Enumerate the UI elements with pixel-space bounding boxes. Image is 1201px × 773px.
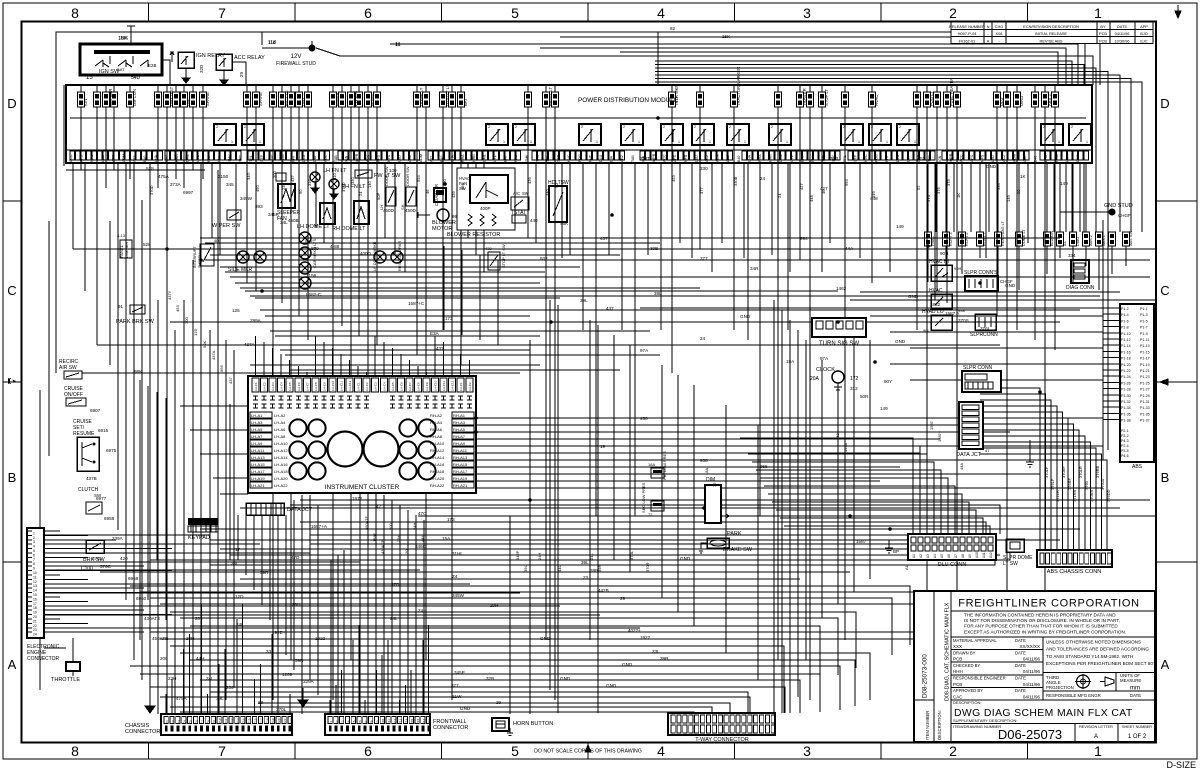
svg-text:MEASURE: MEASURE <box>1120 678 1141 683</box>
rotated wire labels on verticals <box>149 171 1111 572</box>
svg-text:B40: B40 <box>737 156 741 162</box>
switch WIPER SW <box>212 210 241 229</box>
svg-text:UTL: UTL <box>196 155 200 162</box>
svg-text:ABS 1: ABS 1 <box>1102 235 1106 246</box>
svg-text:GND: GND <box>740 314 751 319</box>
svg-text:C22: C22 <box>289 718 293 724</box>
svg-text:1 OF 2: 1 OF 2 <box>1128 734 1147 740</box>
svg-text:04/11/96: 04/11/96 <box>1115 31 1130 36</box>
throttle <box>51 655 80 683</box>
panel dimmer <box>117 233 132 258</box>
svg-text:F16: F16 <box>416 718 420 724</box>
svg-text:90H: 90H <box>954 266 961 271</box>
svg-text:370LF: 370LF <box>1044 466 1049 478</box>
svg-text:RH-A21: RH-A21 <box>453 483 468 488</box>
svg-text:ACC RELAY: ACC RELAY <box>234 55 265 61</box>
svg-text:ABS 2: ABS 2 <box>1089 235 1093 246</box>
svg-text:1: 1 <box>886 140 888 144</box>
svg-text:CAC: CAC <box>953 694 963 699</box>
svg-text:LED: LED <box>694 155 698 162</box>
svg-text:371LR: 371LR <box>1055 490 1060 502</box>
svg-text:F11: F11 <box>387 719 391 724</box>
svg-text:39R: 39R <box>260 570 269 575</box>
svg-text:9: 9 <box>33 567 35 571</box>
svg-text:370L: 370L <box>276 707 287 712</box>
svg-text:1: 1 <box>1058 140 1060 144</box>
wire verticals right bundle to ABS chassis conn <box>980 388 1107 550</box>
svg-text:HVAC: HVAC <box>929 288 943 294</box>
svg-text:RH-A19: RH-A19 <box>453 476 468 481</box>
wire top bus <box>56 32 1100 373</box>
cab marker lamps <box>299 232 317 289</box>
svg-text:8: 8 <box>71 743 79 759</box>
wire number labels <box>86 26 1068 712</box>
svg-text:C12: C12 <box>230 718 234 724</box>
svg-text:STP: STP <box>853 154 857 162</box>
ground BP <box>885 540 899 554</box>
svg-text:DIAG CONN: DIAG CONN <box>1066 285 1095 291</box>
svg-text:A4: A4 <box>933 554 937 558</box>
svg-text:1: 1 <box>231 140 233 144</box>
svg-text:RH-A9: RH-A9 <box>453 441 466 446</box>
svg-text:ABS: ABS <box>1132 464 1143 470</box>
switch LH DOOR SW <box>379 166 396 210</box>
svg-text:RH-A12: RH-A12 <box>430 448 445 453</box>
cluster left pin labels <box>250 412 288 488</box>
svg-text:BAT: BAT <box>800 154 804 162</box>
svg-text:1587+C: 1587+C <box>408 301 425 306</box>
svg-text:37600: 37600 <box>1100 478 1105 490</box>
svg-text:IGN: IGN <box>345 155 349 162</box>
svg-text:345P: 345P <box>515 550 520 560</box>
svg-text:HVC: HVC <box>567 154 571 162</box>
wire pin-row drops <box>212 163 1028 516</box>
svg-text:46K: 46K <box>460 183 465 190</box>
svg-text:A10: A10 <box>975 552 979 558</box>
switch SEC LOW PRES <box>641 482 664 517</box>
svg-text:2: 2 <box>949 5 957 21</box>
svg-text:1587: 1587 <box>856 539 867 544</box>
svg-text:DIA: DIA <box>610 155 614 162</box>
svg-text:11: 11 <box>33 575 37 579</box>
svg-text:04/11/96: 04/11/96 <box>1023 657 1041 662</box>
chassis connector <box>125 714 293 735</box>
svg-text:ABS CHASSIS CONN: ABS CHASSIS CONN <box>1047 569 1101 575</box>
svg-text:2: 2 <box>1071 125 1073 129</box>
svg-text:SPARE: SPARE <box>258 92 263 106</box>
svg-text:C13: C13 <box>236 718 240 724</box>
svg-text:2: 2 <box>33 536 35 540</box>
svg-text:GND: GND <box>460 706 471 711</box>
svg-text:528: 528 <box>143 242 151 247</box>
svg-text:ADM: ADM <box>419 154 423 162</box>
svg-text:P1-24: P1-24 <box>1121 375 1131 379</box>
svg-text:HVAC: HVAC <box>874 95 879 106</box>
svg-text:439: 439 <box>485 246 492 251</box>
svg-text:33L: 33L <box>266 649 274 654</box>
svg-text:LH: LH <box>379 205 384 210</box>
svg-text:ACC: ACC <box>366 154 370 162</box>
svg-text:TRC: TRC <box>239 154 243 162</box>
svg-text:SLPR CONN'S: SLPR CONN'S <box>964 270 998 276</box>
svg-text:F17: F17 <box>422 718 426 724</box>
svg-text:6959: 6959 <box>104 516 115 521</box>
svg-text:1: 1 <box>709 140 711 144</box>
svg-text:3Y0: 3Y0 <box>926 194 931 202</box>
svg-text:1: 1 <box>786 140 788 144</box>
svg-text:LH-C11: LH-C11 <box>442 381 446 391</box>
svg-text:ADM: ADM <box>1012 154 1016 162</box>
svg-text:PRI LOW PRES: PRI LOW PRES <box>662 451 667 480</box>
svg-text:P1-18: P1-18 <box>1121 357 1131 361</box>
svg-text:P1-9: P1-9 <box>1140 332 1148 336</box>
svg-text:345: 345 <box>226 182 234 187</box>
svg-text:345P: 345P <box>454 670 465 675</box>
cluster right pin labels <box>430 412 474 488</box>
svg-text:DRAWN BY: DRAWN BY <box>953 650 976 655</box>
switch RECIRC AIR SW <box>59 359 82 379</box>
svg-text:72: 72 <box>712 482 717 487</box>
svg-text:90: 90 <box>1016 189 1021 194</box>
svg-text:90Y: 90Y <box>884 379 892 384</box>
svg-text:HHH: HHH <box>953 669 963 674</box>
svg-text:DATA JCT: DATA JCT <box>287 507 313 513</box>
svg-text:427: 427 <box>799 183 804 190</box>
svg-text:TRC: TRC <box>535 154 539 162</box>
svg-text:LED: LED <box>991 155 995 162</box>
svg-text:23H: 23H <box>168 676 176 681</box>
svg-text:38L: 38L <box>231 561 239 566</box>
svg-text:LHA: LHA <box>1044 154 1048 162</box>
svg-text:POWER DISTRIBUTION MODULE: POWER DISTRIBUTION MODULE <box>578 97 678 104</box>
svg-text:450D: 450D <box>383 208 395 213</box>
svg-text:FOG: FOG <box>578 154 582 162</box>
svg-text:453: 453 <box>671 175 676 182</box>
svg-text:A1: A1 <box>904 564 909 570</box>
svg-text:52: 52 <box>916 185 921 190</box>
ABS CHASSIS CONN connector <box>1037 550 1112 575</box>
svg-text:300: 300 <box>272 171 277 178</box>
svg-text:15: 15 <box>86 75 93 81</box>
lamp LH DOME LT <box>288 203 335 230</box>
svg-text:39L: 39L <box>580 298 588 303</box>
svg-text:LH-A2: LH-A2 <box>274 413 286 418</box>
svg-text:Z4: Z4 <box>452 574 458 579</box>
svg-text:200: 200 <box>388 523 393 530</box>
svg-text:HRN: HRN <box>472 154 476 162</box>
svg-text:1: 1 <box>259 140 261 144</box>
svg-text:UTILITY LT: UTILITY LT <box>445 84 450 106</box>
svg-text:HVAC: HVAC <box>931 235 935 246</box>
svg-text:CIG SDR: CIG SDR <box>108 89 113 106</box>
svg-text:XX/XX/XX: XX/XX/XX <box>1019 644 1040 649</box>
svg-text:RHA: RHA <box>758 154 762 162</box>
svg-text:P1-4: P1-4 <box>1121 313 1129 317</box>
svg-text:2: 2 <box>581 125 583 129</box>
svg-text:20H: 20H <box>292 602 300 607</box>
svg-text:C7: C7 <box>200 720 204 724</box>
svg-text:430ATE: 430ATE <box>144 616 160 621</box>
svg-text:20L: 20L <box>404 547 409 554</box>
svg-text:21W: 21W <box>452 694 462 699</box>
svg-text:FOG: FOG <box>875 154 879 162</box>
svg-text:5: 5 <box>511 743 519 759</box>
svg-text:1: 1 <box>596 140 598 144</box>
svg-text:RH-A11: RH-A11 <box>453 448 468 453</box>
switch INTERRUPT SWITCH <box>193 238 219 268</box>
svg-text:1: 1 <box>1094 743 1102 759</box>
svg-text:LH-A18: LH-A18 <box>274 469 288 474</box>
svg-text:RH DOOR MRKR: RH DOOR MRKR <box>398 241 402 271</box>
svg-text:AC2: AC2 <box>705 155 709 162</box>
svg-text:20: 20 <box>33 615 37 619</box>
svg-text:P2-4: P2-4 <box>1121 444 1129 448</box>
svg-text:437: 437 <box>290 175 295 182</box>
svg-text:330: 330 <box>350 177 355 184</box>
svg-text:172: 172 <box>850 376 859 382</box>
svg-text:CONNECTOR: CONNECTOR <box>433 725 468 731</box>
ground mid lower <box>298 688 308 707</box>
keypad <box>188 518 218 541</box>
svg-text:INTERRUPT: INTERRUPT <box>193 246 197 268</box>
svg-text:P1-12: P1-12 <box>1121 338 1131 342</box>
svg-text:RH DOME LT: RH DOME LT <box>332 226 366 232</box>
svg-text:149: 149 <box>880 406 888 411</box>
svg-text:39R: 39R <box>597 565 602 572</box>
svg-text:448: 448 <box>809 195 814 202</box>
svg-text:P4-3: P4-3 <box>1121 439 1129 443</box>
svg-text:LED: LED <box>398 155 402 162</box>
PDM pin labels texture <box>69 153 1080 162</box>
svg-text:DM1: DM1 <box>1076 154 1080 162</box>
svg-text:LH DOOR MRKR: LH DOOR MRKR <box>373 241 377 271</box>
svg-text:1: 1 <box>678 140 680 144</box>
svg-text:329A: 329A <box>303 679 315 684</box>
svg-text:AFS: AFS <box>970 154 974 162</box>
svg-text:97D: 97D <box>391 582 400 587</box>
svg-text:2: 2 <box>623 125 625 129</box>
svg-text:299A: 299A <box>250 318 262 323</box>
svg-text:90: 90 <box>298 189 303 194</box>
svg-text:DATE: DATE <box>1015 663 1026 668</box>
svg-text:LH-C5: LH-C5 <box>391 382 395 391</box>
power distribution module PDM <box>66 85 1092 163</box>
svg-text:C1: C1 <box>165 720 169 724</box>
svg-text:393: 393 <box>255 204 263 209</box>
svg-text:200: 200 <box>160 656 168 661</box>
svg-text:6977: 6977 <box>96 496 107 501</box>
svg-text:44A: 44A <box>845 246 854 251</box>
svg-text:21: 21 <box>33 619 37 623</box>
svg-text:98K: 98K <box>134 369 143 374</box>
svg-text:LED: LED <box>101 155 105 162</box>
svg-text:P1-26: P1-26 <box>1121 381 1131 385</box>
svg-text:LH-A5: LH-A5 <box>251 427 263 432</box>
svg-text:FIREWALL STUD: FIREWALL STUD <box>276 61 316 67</box>
svg-text:WIPER SW: WIPER SW <box>212 223 241 229</box>
svg-text:LH-C3: LH-C3 <box>271 382 275 391</box>
svg-text:DATE: DATE <box>1015 676 1026 681</box>
svg-text:97A: 97A <box>820 356 829 361</box>
svg-text:373A: 373A <box>170 182 182 187</box>
svg-text:LH-C4: LH-C4 <box>382 382 386 391</box>
svg-text:11: 11 <box>395 42 400 47</box>
svg-text:FW LTS: FW LTS <box>353 91 358 106</box>
svg-text:FOG: FOG <box>281 154 285 162</box>
svg-text:7: 7 <box>218 5 226 21</box>
svg-text:29: 29 <box>620 596 626 601</box>
svg-text:SUPPLEMENTARY DESCRIPTION:: SUPPLEMENTARY DESCRIPTION: <box>953 718 1017 723</box>
title block <box>914 591 1156 742</box>
svg-text:BLOWER RESISTOR: BLOWER RESISTOR <box>447 232 500 238</box>
svg-text:D: D <box>1160 96 1169 111</box>
svg-text:LH-A16: LH-A16 <box>274 462 288 467</box>
PDM bottom pin band <box>66 150 1092 160</box>
wire bus mid-band horizontals <box>73 238 1156 373</box>
switch SLPR DOME LT SW <box>1003 539 1033 567</box>
third-angle projection icon <box>1075 674 1114 689</box>
svg-text:994: 994 <box>844 179 849 186</box>
svg-text:GND: GND <box>908 294 919 299</box>
svg-text:RESPONSIBLE ENGINEER: RESPONSIBLE ENGINEER <box>953 676 1006 681</box>
svg-text:370L: 370L <box>629 550 634 560</box>
svg-text:4D: 4D <box>214 238 219 243</box>
svg-text:A8: A8 <box>961 554 965 558</box>
svg-text:C9: C9 <box>212 720 216 724</box>
svg-text:C14: C14 <box>242 718 246 724</box>
svg-text:ABS 2: ABS 2 <box>1047 93 1052 106</box>
svg-text:1822: 1822 <box>930 302 941 307</box>
svg-text:C5: C5 <box>189 720 193 724</box>
svg-text:1269: 1269 <box>282 672 293 677</box>
svg-text:47C: 47C <box>418 511 427 516</box>
svg-text:15A: 15A <box>786 359 795 364</box>
svg-text:LH-A17: LH-A17 <box>251 469 265 474</box>
svg-text:24: 24 <box>760 176 766 181</box>
svg-text:1: 1 <box>503 140 505 144</box>
svg-text:377: 377 <box>699 187 704 194</box>
svg-text:GND: GND <box>895 339 906 344</box>
svg-text:2: 2 <box>949 743 957 759</box>
svg-text:LH-C2: LH-C2 <box>468 382 472 391</box>
svg-text:8: 8 <box>71 5 79 21</box>
svg-text:19: 19 <box>33 611 37 615</box>
svg-text:3760: 3760 <box>1084 480 1089 490</box>
svg-text:33L: 33L <box>652 649 660 654</box>
svg-text:24: 24 <box>700 336 706 341</box>
switch STOP LT SW <box>485 244 506 270</box>
svg-text:REVISE ABS: REVISE ABS <box>1040 38 1063 43</box>
switch CRUISE ON/OFF <box>64 386 86 406</box>
svg-text:GND STUD: GND STUD <box>1104 203 1133 209</box>
svg-text:A22: A22 <box>429 156 433 162</box>
svg-text:REVISION LETTER: REVISION LETTER <box>1079 725 1113 729</box>
svg-text:377D: 377D <box>640 156 652 161</box>
svg-text:TRL: TRL <box>843 155 847 162</box>
switch TURN SIG SW <box>812 318 866 347</box>
svg-text:100: 100 <box>389 168 397 173</box>
svg-text:LHA: LHA <box>747 154 751 162</box>
svg-text:E3A: E3A <box>430 331 440 336</box>
svg-text:6: 6 <box>33 553 35 557</box>
svg-text:AC2: AC2 <box>408 155 412 162</box>
svg-text:TRL: TRL <box>249 155 253 162</box>
svg-text:ON/OFF: ON/OFF <box>64 392 83 398</box>
svg-text:TAB: TAB <box>631 155 635 162</box>
svg-text:300: 300 <box>184 317 189 324</box>
svg-text:GND: GND <box>622 662 633 667</box>
svg-text:12: 12 <box>33 580 37 584</box>
svg-text:16: 16 <box>33 597 37 601</box>
svg-text:C11: C11 <box>224 718 228 724</box>
svg-text:LH-C8: LH-C8 <box>314 382 318 391</box>
wire EEC stubs <box>44 531 172 632</box>
svg-text:WPR: WPR <box>652 153 656 162</box>
svg-text:LH-A10: LH-A10 <box>274 441 288 446</box>
svg-text:376DD: 376DD <box>1106 489 1111 502</box>
svg-text:DIAG: DIAG <box>1019 96 1024 106</box>
svg-text:376RB: 376RB <box>1095 465 1100 478</box>
svg-text:IS NOT FOR DISSEMINATION OR DI: IS NOT FOR DISSEMINATION OR DISCLOSURE. … <box>964 618 1120 623</box>
svg-text:C21: C21 <box>283 718 287 724</box>
svg-text:DLU: DLU <box>302 154 306 162</box>
svg-text:BAT: BAT <box>117 67 125 72</box>
svg-text:DM: DM <box>186 99 191 106</box>
svg-text:FOG LT: FOG LT <box>929 91 934 106</box>
svg-text:LH-C7: LH-C7 <box>305 382 309 391</box>
svg-text:AFS: AFS <box>376 154 380 162</box>
svg-text:LH-A11: LH-A11 <box>251 448 265 453</box>
svg-text:F1: F1 <box>329 720 333 724</box>
svg-text:EJC: EJC <box>1140 38 1148 43</box>
switch PRI LOW PRES <box>648 451 667 480</box>
svg-text:PNL: PNL <box>514 155 518 162</box>
svg-text:C: C <box>7 283 16 298</box>
svg-text:F2: F2 <box>335 720 339 724</box>
svg-text:2: 2 <box>515 125 517 129</box>
svg-text:LH-C7: LH-C7 <box>408 382 412 391</box>
svg-text:P1-30: P1-30 <box>1121 394 1131 398</box>
svg-text:6: 6 <box>364 5 372 21</box>
svg-text:2: 2 <box>729 125 731 129</box>
svg-text:P1-36: P1-36 <box>1121 412 1131 416</box>
svg-text:TO ANSI STANDARD Y14.5M-1982.: TO ANSI STANDARD Y14.5M-1982. WITH <box>1046 654 1133 659</box>
svg-text:LH-C8: LH-C8 <box>416 382 420 391</box>
svg-text:HVAC HI: HVAC HI <box>929 259 949 265</box>
svg-text:SW: SW <box>522 191 529 196</box>
svg-text:994: 994 <box>416 175 421 182</box>
svg-text:AC2: AC2 <box>1002 155 1006 162</box>
svg-text:20H: 20H <box>186 636 194 641</box>
svg-text:A3: A3 <box>926 554 930 558</box>
thermostat TSTAT <box>511 210 538 223</box>
svg-text:LH-C2: LH-C2 <box>365 382 369 391</box>
svg-text:1: 1 <box>744 140 746 144</box>
svg-text:UNLESS OTHERWISE NOTED DIMENS: UNLESS OTHERWISE NOTED DIMENSIONS <box>1046 640 1141 645</box>
svg-text:GND: GND <box>680 556 691 561</box>
svg-text:LT SW: LT SW <box>1003 561 1018 567</box>
svg-text:FHT: FHT <box>588 154 592 162</box>
svg-text:RHA: RHA <box>461 154 465 162</box>
svg-text:LHA: LHA <box>154 154 158 162</box>
svg-text:P1-22: P1-22 <box>1121 369 1131 373</box>
svg-text:8: 8 <box>33 562 35 566</box>
svg-text:46: 46 <box>821 189 826 194</box>
svg-text:A12: A12 <box>989 552 993 558</box>
svg-text:10/30/96: 10/30/96 <box>1114 38 1129 43</box>
svg-text:23H: 23H <box>396 535 401 542</box>
svg-text:TRACTOR MARKER: TRACTOR MARKER <box>736 67 741 106</box>
